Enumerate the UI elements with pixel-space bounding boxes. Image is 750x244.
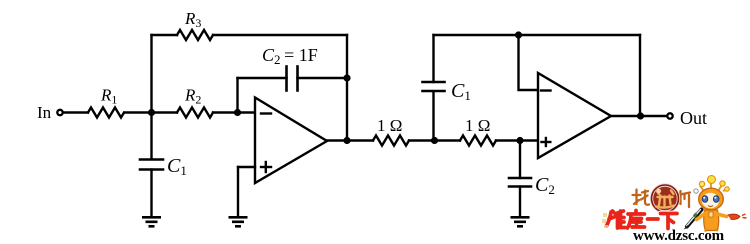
svg-text:1 Ω: 1 Ω [465,116,490,135]
svg-text:C2 = 1F: C2 = 1F [262,45,318,67]
svg-text:R2: R2 [184,86,201,107]
svg-text:C2: C2 [535,174,555,197]
svg-text:www.dzsc.com: www.dzsc.com [633,228,725,244]
svg-text:C1: C1 [167,155,187,178]
svg-text:Out: Out [680,108,707,128]
svg-text:R3: R3 [184,9,201,30]
svg-text:C1: C1 [451,80,471,103]
svg-text:1 Ω: 1 Ω [377,116,402,135]
svg-text:In: In [37,103,52,122]
svg-text:R1: R1 [100,86,117,107]
